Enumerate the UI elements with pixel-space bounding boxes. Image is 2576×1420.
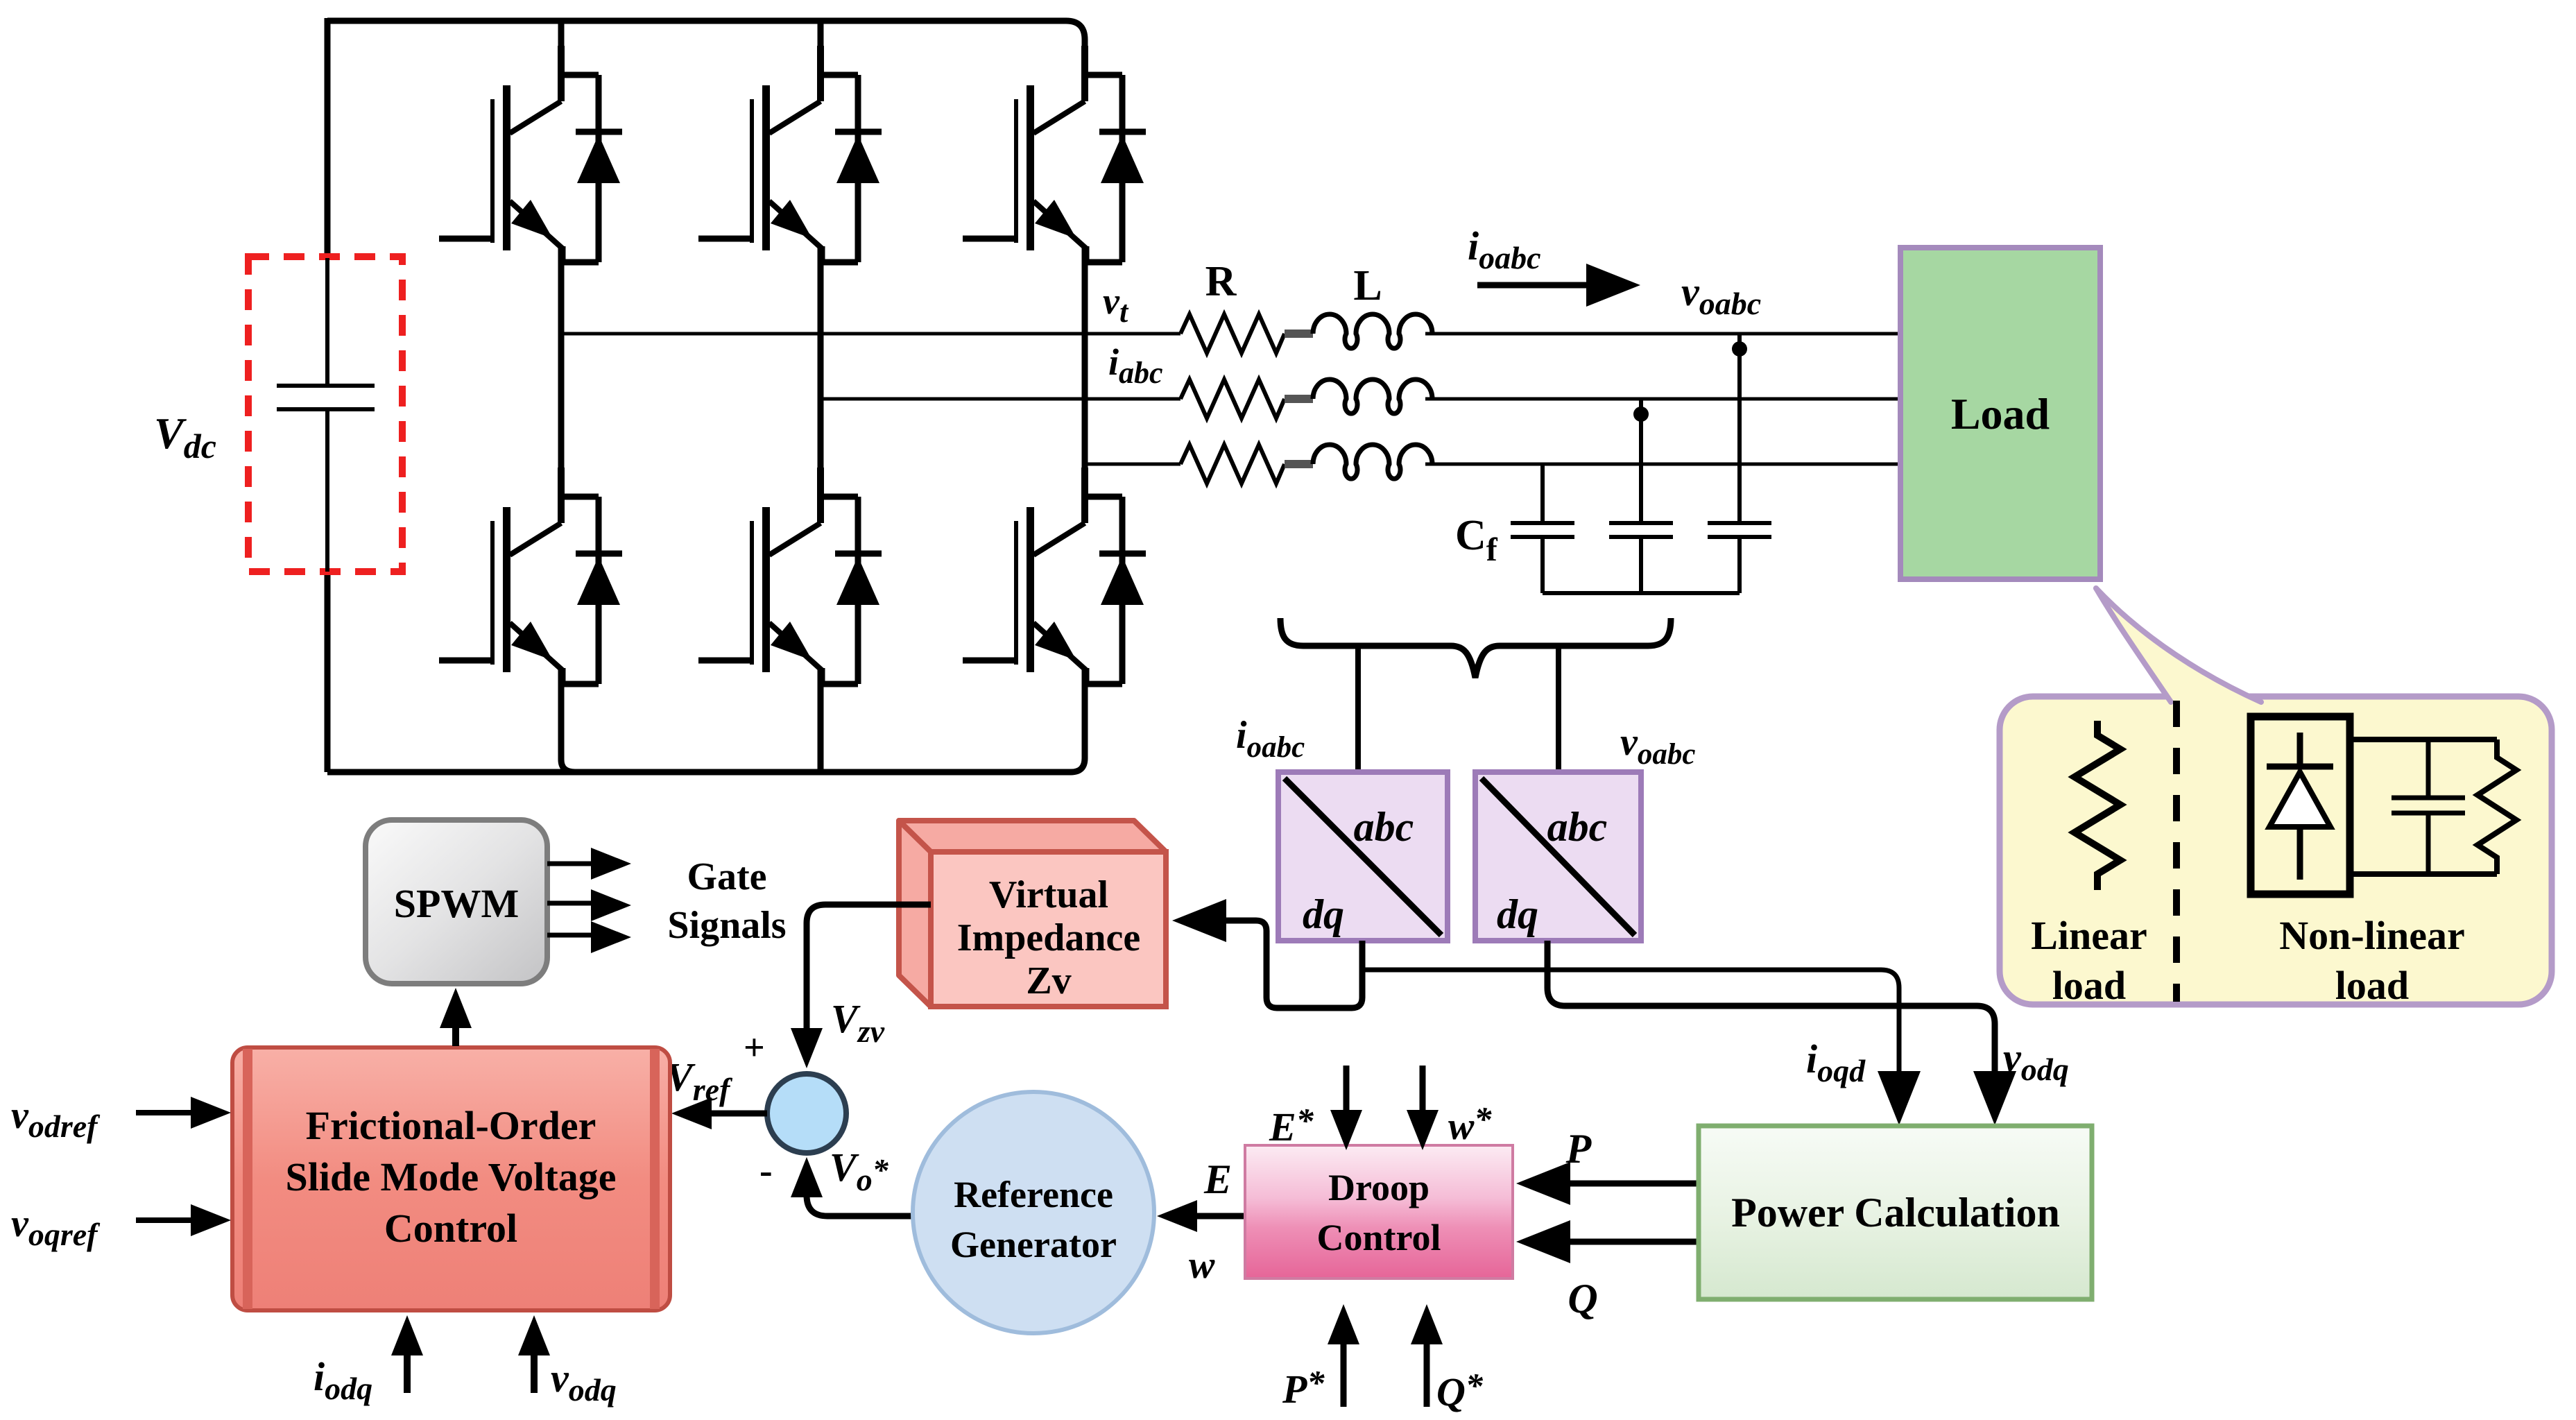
svg-text:Gate: Gate <box>687 855 766 898</box>
svg-text:P: P <box>1565 1126 1592 1172</box>
svg-text:Control: Control <box>384 1206 517 1251</box>
svg-text:R: R <box>1205 258 1237 305</box>
svg-text:+: + <box>744 1027 765 1068</box>
svg-text:Control: Control <box>1316 1217 1441 1258</box>
svg-text:Slide Mode Voltage: Slide Mode Voltage <box>286 1154 617 1199</box>
svg-text:E: E <box>1203 1156 1232 1202</box>
svg-text:Zv: Zv <box>1026 959 1071 1002</box>
svg-text:dq: dq <box>1303 891 1344 937</box>
svg-text:load: load <box>2335 963 2409 1008</box>
svg-text:abc: abc <box>1547 804 1608 850</box>
svg-text:Impedance: Impedance <box>957 916 1140 959</box>
svg-text:dq: dq <box>1497 891 1538 937</box>
svg-text:Power Calculation: Power Calculation <box>1731 1190 2060 1235</box>
svg-text:Load: Load <box>1951 389 2050 438</box>
svg-text:L: L <box>1353 262 1382 309</box>
svg-text:Droop: Droop <box>1328 1167 1429 1208</box>
svg-text:Signals: Signals <box>667 904 786 947</box>
svg-text:Generator: Generator <box>950 1224 1117 1265</box>
svg-text:Reference: Reference <box>954 1174 1113 1215</box>
svg-text:-: - <box>759 1149 773 1192</box>
svg-text:Virtual: Virtual <box>989 873 1108 916</box>
svg-text:abc: abc <box>1354 804 1414 850</box>
svg-text:Linear: Linear <box>2031 913 2147 958</box>
svg-text:Q: Q <box>1568 1276 1597 1321</box>
svg-text:SPWM: SPWM <box>394 881 519 926</box>
svg-text:Frictional-Order: Frictional-Order <box>306 1103 596 1148</box>
svg-text:w: w <box>1189 1244 1215 1287</box>
svg-text:load: load <box>2052 963 2126 1008</box>
svg-text:Non-linear: Non-linear <box>2279 913 2464 958</box>
